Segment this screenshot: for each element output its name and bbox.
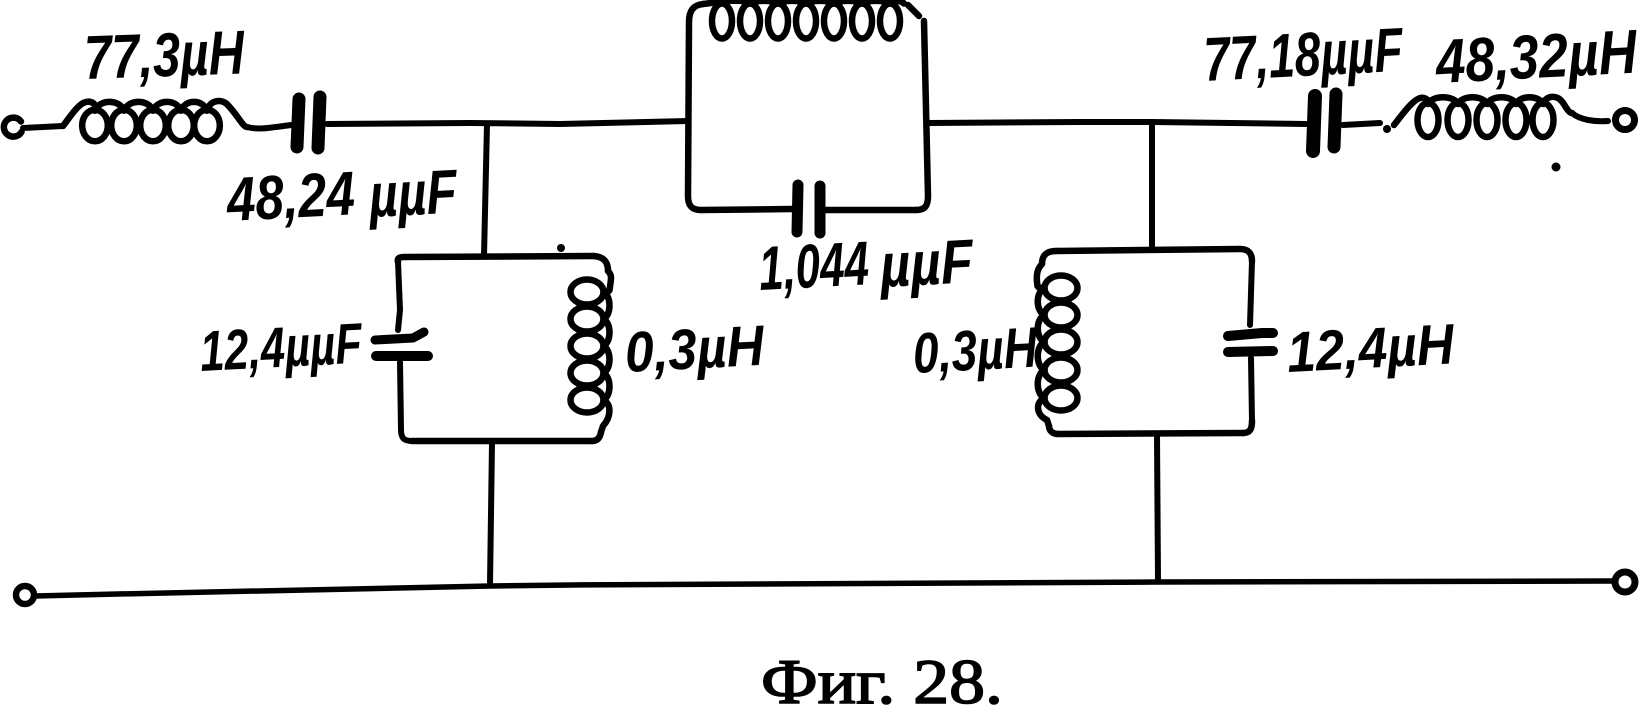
right tank bottom edge xyxy=(1058,433,1243,434)
svg-text:12,4µH: 12,4µH xyxy=(1285,312,1457,385)
wire: right tank down to bottom rail xyxy=(1157,436,1158,580)
svg-text:48,32µH: 48,32µH xyxy=(1432,18,1639,98)
left tank top edge xyxy=(398,256,594,262)
svg-text:µµF: µµF xyxy=(876,227,976,301)
middle tank left edge xyxy=(688,4,703,210)
wire: L1 to C1 xyxy=(247,125,291,128)
left tank bottom-right corner xyxy=(592,432,601,441)
output terminal top-right xyxy=(1616,111,1635,130)
wire: node A down to left tank xyxy=(484,124,487,256)
capacitor C3 1.044uuF left plate xyxy=(797,185,798,232)
inductor L5 0.3uH left side of right tank xyxy=(1037,264,1078,426)
right tank top edge xyxy=(1056,249,1252,261)
svg-text:Фиг. 28.: Фиг. 28. xyxy=(761,646,1003,706)
svg-text:77,18µµF: 77,18µµF xyxy=(1202,16,1406,95)
value label 48.24uuF for C1 (units) xyxy=(366,157,461,231)
capacitor C1 48.24uuF right plate xyxy=(318,97,320,148)
inductor L3 top of middle tank xyxy=(703,1,904,39)
value label 1.044uuF for C3 (number) xyxy=(757,229,870,304)
capacitor C2 77.18uuF right plate xyxy=(1334,94,1336,147)
value label 77.3uH for L1 xyxy=(83,18,246,93)
value label 48.32uH for L2 xyxy=(1432,18,1639,98)
wire: node B down to right tank xyxy=(1149,123,1155,249)
bottom rail wire xyxy=(35,581,1612,596)
inductor L1 77.3uH xyxy=(63,101,247,141)
wire: input terminal to L1 xyxy=(23,126,63,128)
right tank bottom-left corner xyxy=(1049,426,1058,434)
right tank right edge lower xyxy=(1251,358,1252,421)
ink dot at L2 input xyxy=(1383,125,1391,133)
ink fleck above left tank xyxy=(557,244,565,252)
middle tank right edge xyxy=(916,21,928,210)
right tank top-left corner xyxy=(1042,251,1056,264)
right tank bottom-right corner xyxy=(1243,421,1252,433)
capacitor C5 12.4uH top plate xyxy=(1228,333,1273,336)
inductor L4 0.3uH right side of left tank xyxy=(571,271,612,432)
wire: C2 to L2 xyxy=(1343,123,1380,125)
svg-text:12,4µµF: 12,4µµF xyxy=(198,312,365,384)
svg-text:48,24: 48,24 xyxy=(223,159,356,235)
wire: L2 to output terminal xyxy=(1572,113,1608,121)
middle tank bottom edge right part xyxy=(825,207,916,214)
svg-text:0,3µH: 0,3µH xyxy=(911,316,1040,386)
value label 77.18uuF for C2 xyxy=(1202,16,1406,95)
value label 48.24uuF for C1 (number) xyxy=(223,159,356,235)
middle tank bottom edge left part xyxy=(701,209,792,210)
capacitor C4 12.4uuF top plate xyxy=(375,332,424,340)
value label 12.4uH for C5 xyxy=(1285,312,1457,385)
wire: C1 to node A to middle tank xyxy=(327,121,688,124)
right tank right edge upper xyxy=(1250,261,1252,325)
wire: middle tank to node B to C2 xyxy=(928,122,1306,124)
svg-text:1,044: 1,044 xyxy=(757,229,870,304)
svg-text:77,3µH: 77,3µH xyxy=(83,18,246,93)
left tank left edge lower xyxy=(400,362,412,441)
capacitor C3 1.044uuF right plate xyxy=(815,186,826,233)
svg-text:µµF: µµF xyxy=(366,157,461,231)
input terminal top-left xyxy=(4,118,22,137)
bottom terminal right xyxy=(1615,572,1635,592)
capacitor C4 12.4uuF bottom plate xyxy=(376,351,428,361)
capacitor C2 77.18uuF left plate xyxy=(1313,96,1315,151)
left tank left edge upper xyxy=(398,262,400,330)
inductor L2 48.32uH xyxy=(1394,97,1572,137)
capacitor C5 12.4uH bottom plate xyxy=(1228,351,1273,352)
value label 12.4uuF for C4 xyxy=(198,312,365,384)
capacitor C1 48.24uuF left plate xyxy=(297,99,299,147)
left tank bottom edge xyxy=(412,438,592,445)
value label 0.3uH for L5 xyxy=(911,316,1040,386)
value label 0.3uH for L4 xyxy=(623,314,767,385)
left tank top-right corner xyxy=(594,256,608,271)
middle tank broken top-right corner tick xyxy=(908,5,919,16)
svg-text:0,3µH: 0,3µH xyxy=(623,314,767,385)
ink fleck below L2 xyxy=(1552,163,1561,172)
value label 1.044uuF for C3 (units) xyxy=(876,227,976,301)
bottom terminal left xyxy=(16,586,34,604)
wire: left tank down to bottom rail xyxy=(490,443,492,584)
